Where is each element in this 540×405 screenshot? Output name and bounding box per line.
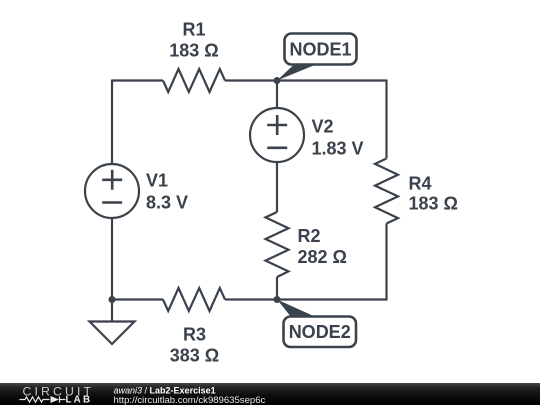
node A junction dot (NODE1): [274, 77, 281, 84]
wire top-left horizontal: [112, 79, 163, 81]
voltage source V2: [250, 108, 304, 162]
wire right vertical upper: [385, 80, 387, 159]
wire middle vertical mid: [276, 162, 278, 213]
resistor R2: [266, 212, 289, 277]
svg-text:V1: V1: [146, 170, 168, 190]
svg-text:V2: V2: [312, 117, 334, 137]
node NODE2 label box: [284, 317, 357, 348]
wire middle vertical lower: [276, 277, 278, 300]
wire middle vertical upper: [276, 81, 278, 110]
resistor R4: [375, 159, 398, 224]
V2 minus sign: [267, 147, 287, 150]
wire bottom-right horizontal: [277, 298, 387, 300]
resistor R3: [163, 288, 225, 311]
wire bottom-middle horizontal: [225, 298, 277, 300]
svg-text:R4: R4: [409, 173, 432, 193]
svg-text:383 Ω: 383 Ω: [170, 346, 219, 366]
svg-text:NODE1: NODE1: [289, 39, 351, 59]
svg-text:NODE2: NODE2: [289, 322, 351, 342]
ground symbol: [90, 322, 135, 345]
svg-text:8.3 V: 8.3 V: [146, 192, 188, 212]
svg-text:http://circuitlab.com/ck989635: http://circuitlab.com/ck989635sep6c: [114, 395, 266, 405]
svg-text:183 Ω: 183 Ω: [169, 41, 218, 61]
svg-text:183 Ω: 183 Ω: [409, 193, 458, 213]
svg-text:R3: R3: [183, 325, 206, 345]
wire left vertical lower: [111, 218, 113, 300]
voltage source V1: [85, 164, 139, 218]
svg-text:LAB: LAB: [66, 395, 93, 405]
V1 plus sign: [102, 170, 122, 190]
svg-text:1.83 V: 1.83 V: [312, 139, 364, 159]
wire left vertical upper: [111, 80, 113, 166]
node NODE2 callout tail: [277, 300, 318, 319]
node B junction dot (NODE2): [274, 296, 281, 303]
resistor R1: [163, 69, 225, 92]
svg-text:R2: R2: [298, 226, 321, 246]
wire top-right horizontal: [225, 79, 387, 81]
ground stub wire: [111, 300, 113, 322]
wire bottom-left horizontal: [112, 298, 163, 300]
CircuitLab logo resistor-diode glyph: [20, 396, 66, 402]
V1 minus sign: [102, 201, 122, 204]
ground junction dot: [109, 296, 116, 303]
svg-text:R1: R1: [182, 20, 205, 40]
wire right vertical lower: [385, 224, 387, 301]
node NODE1 label box: [285, 34, 357, 65]
V2 plus sign: [267, 115, 287, 135]
CircuitLab logo diode triangle: [51, 396, 60, 403]
svg-text:282 Ω: 282 Ω: [298, 247, 347, 267]
node NODE1 callout tail: [277, 65, 316, 81]
